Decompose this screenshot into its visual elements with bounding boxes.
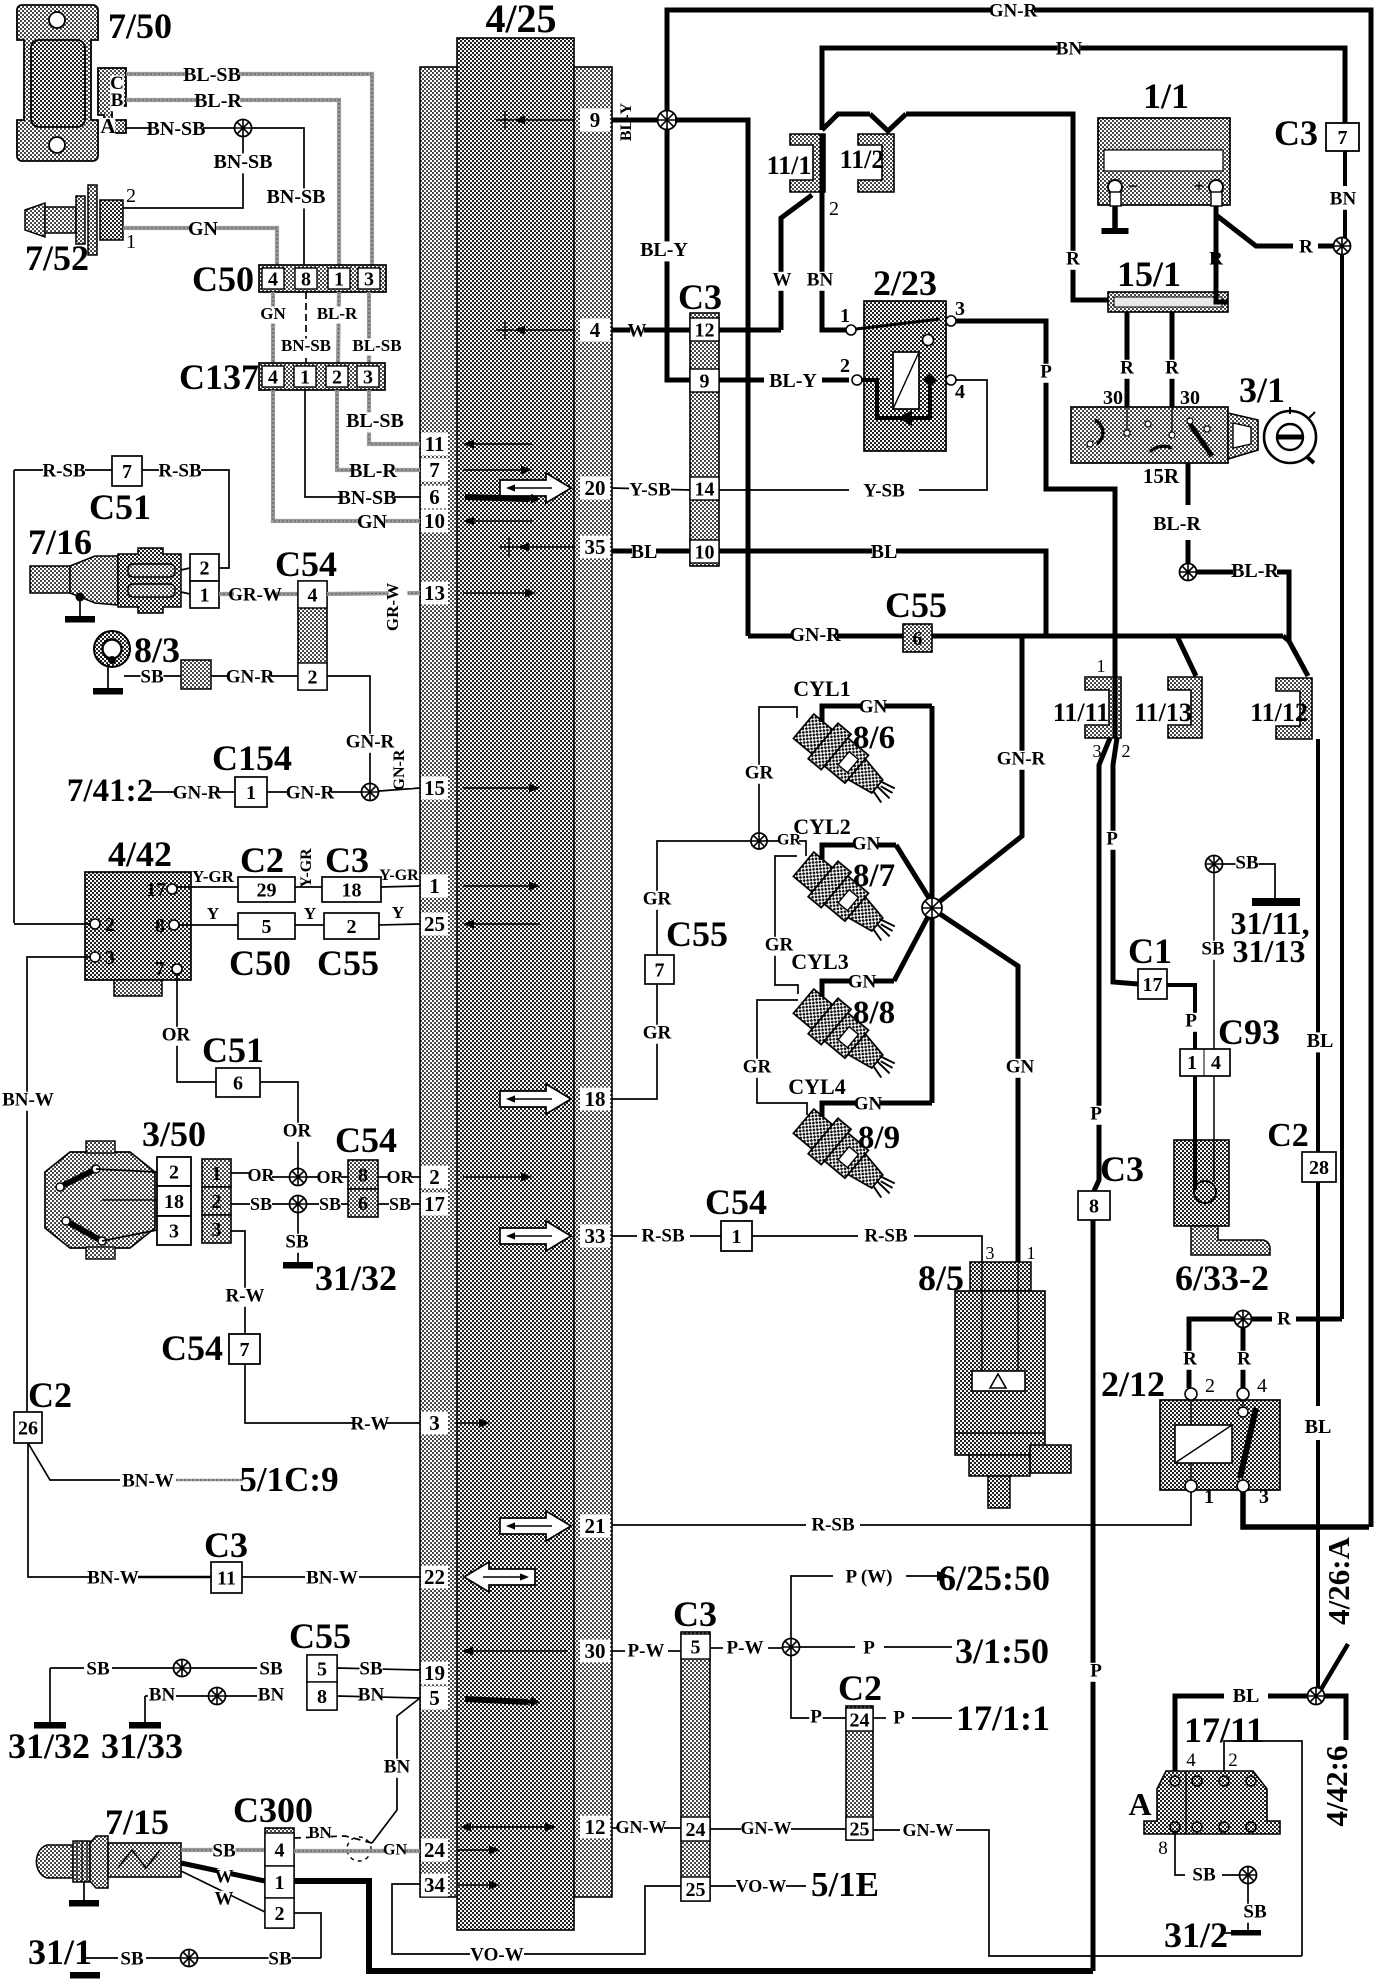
svg-text:17: 17 — [146, 879, 166, 901]
P (W) label — [843, 1566, 895, 1587]
BN-SB label 3 — [214, 151, 273, 174]
GN label cyl3 — [848, 971, 877, 992]
7/15 label — [105, 1802, 169, 1842]
P label 1 — [1039, 361, 1053, 382]
31/11 label — [1230, 905, 1309, 941]
C2 cell 24 — [846, 1708, 873, 1731]
2/23 internal wire — [862, 373, 937, 426]
svg-text:1: 1 — [300, 366, 310, 388]
svg-text:C300: C300 — [233, 1790, 313, 1830]
GN label cyl1 — [859, 696, 888, 717]
svg-text:6: 6 — [233, 1072, 243, 1094]
W label — [628, 320, 647, 341]
svg-text:31/32: 31/32 — [315, 1258, 397, 1298]
C3 cell 5 — [681, 1634, 710, 1659]
svg-text:SB: SB — [250, 1194, 272, 1214]
2/23 pin 4 — [946, 375, 965, 403]
svg-text:C55: C55 — [317, 943, 379, 983]
P label B — [1105, 828, 1119, 849]
svg-text:BL-Y: BL-Y — [640, 239, 688, 261]
31/32 label a — [315, 1258, 397, 1298]
node 3/1:50 — [955, 1631, 1049, 1671]
svg-text:C54: C54 — [705, 1182, 767, 1222]
BN label c1 — [149, 1684, 176, 1705]
wire GN-W ECU pin 12 to C3:24 — [612, 1827, 681, 1829]
GN label — [188, 218, 219, 241]
wire GN-R splice to ECU pin 15 — [379, 788, 420, 791]
GN-W label b — [741, 1818, 792, 1839]
wire R fuse to switch 30 a — [1125, 312, 1130, 410]
svg-text:C2: C2 — [1267, 1117, 1309, 1154]
wire Y-SB 2/23 pin4 to C3:14 — [719, 380, 987, 490]
svg-text:C1: C1 — [1128, 931, 1172, 971]
BN-SB label 2 — [267, 186, 326, 209]
wire GR chain CYL1 — [759, 707, 797, 833]
C1 label — [1128, 931, 1172, 971]
svg-text:GN: GN — [852, 833, 881, 854]
svg-text:SB: SB — [389, 1194, 411, 1214]
svg-text:11: 11 — [425, 432, 445, 456]
svg-text:1: 1 — [334, 268, 344, 290]
svg-text:3: 3 — [169, 1220, 179, 1242]
svg-text:R: R — [1165, 357, 1179, 378]
wire BN C3:7 down — [1343, 123, 1347, 238]
connector C55 pin 7 — [645, 955, 674, 984]
wire SB C55:5 to ECU pin 19 — [337, 1668, 420, 1670]
R label fuse r — [1209, 248, 1223, 269]
11/11 pin 3 — [1093, 741, 1102, 761]
svg-text:2: 2 — [347, 916, 357, 938]
wire SB splice to ground — [297, 1212, 299, 1262]
svg-text:31/32: 31/32 — [8, 1726, 90, 1766]
svg-text:GN: GN — [383, 1841, 407, 1858]
GN label small — [260, 304, 286, 324]
svg-text:9: 9 — [700, 370, 710, 392]
injector 8/9 CYL4 — [789, 1103, 905, 1211]
svg-text:CYL4: CYL4 — [788, 1074, 845, 1099]
C3 label 11 — [204, 1525, 248, 1565]
11/2 label — [840, 145, 885, 174]
ECU 4/25 pin 13 — [421, 581, 536, 605]
C154 label — [212, 738, 292, 778]
svg-text:C3: C3 — [673, 1594, 717, 1634]
svg-text:5/1C:9: 5/1C:9 — [239, 1460, 338, 1499]
connector 11/2 — [858, 134, 894, 192]
BL label low — [1305, 1416, 1332, 1439]
ECU 4/25 pin 2 — [421, 1165, 532, 1189]
battery 1/1 — [1098, 118, 1230, 205]
svg-text:4: 4 — [275, 1839, 285, 1861]
connector C2 bottom strip — [846, 1706, 873, 1840]
30 label b — [1180, 387, 1200, 409]
svg-text:10: 10 — [695, 541, 715, 563]
wire BN ECU pin 5 to C300 — [294, 1698, 420, 1843]
svg-text:15R: 15R — [1143, 464, 1180, 488]
svg-text:BL-R: BL-R — [1231, 560, 1279, 582]
svg-text:6: 6 — [429, 485, 440, 509]
BL-SB label small — [352, 336, 401, 356]
BL-R label — [194, 90, 242, 113]
svg-text:4/42: 4/42 — [108, 834, 172, 874]
connector C1 pin 17 — [1138, 969, 1167, 999]
wire BN-W C2:26 to 5/1C:9 — [28, 1443, 243, 1480]
svg-text:25: 25 — [686, 1879, 706, 1901]
W label 1 — [215, 1866, 234, 1887]
wire BL-Y splice right down — [675, 120, 748, 636]
svg-text:4: 4 — [1257, 1375, 1267, 1397]
C51 label mid — [202, 1030, 264, 1070]
svg-text:R-W: R-W — [225, 1285, 264, 1306]
P label 3150 — [862, 1637, 876, 1658]
wire BN-W 4/42:3 down to C2:26 — [27, 957, 90, 1412]
wire GN-R branch down — [934, 636, 1022, 906]
wire GN-R row — [748, 634, 1283, 639]
svg-text:BL-SB: BL-SB — [183, 64, 241, 86]
injector 8/6 CYL1 — [789, 708, 905, 816]
svg-text:R-SB: R-SB — [641, 1225, 685, 1246]
svg-text:8: 8 — [301, 268, 311, 290]
wire SB 3/50:2 to splice — [231, 1203, 290, 1205]
wire BL-R from 7/50 pin B to C50 pin 1 — [126, 100, 339, 265]
ECU 4/25 pin 10 — [421, 509, 532, 533]
svg-text:8/9: 8/9 — [858, 1120, 900, 1156]
wire R long vertical — [1340, 255, 1344, 1319]
bus GN-R top — [667, 10, 1371, 1527]
wire BL 2/12 pin 3 to row — [1243, 1492, 1369, 1527]
connector C2 pin 29 — [238, 877, 295, 902]
C55 cell 6 — [903, 624, 932, 652]
svg-text:8/5: 8/5 — [918, 1258, 964, 1298]
svg-text:Y-GR: Y-GR — [192, 867, 235, 886]
solenoid 6/33-2 — [1174, 1140, 1270, 1255]
wire P W up branch — [791, 1576, 833, 1638]
svg-text:4/42:6: 4/42:6 — [1319, 1746, 1354, 1827]
4/42 label — [108, 834, 172, 874]
ECU 4/25 pin 17 — [421, 1192, 448, 1216]
wire R-SB row — [14, 469, 112, 471]
ignition coil 8/5 — [955, 1262, 1071, 1508]
17/11 label — [1184, 1710, 1264, 1750]
wire BL right corner — [1325, 1696, 1346, 1740]
wire BL row 17/11 — [1175, 1696, 1307, 1778]
svg-text:7: 7 — [655, 959, 665, 981]
svg-text:1/1: 1/1 — [1143, 76, 1189, 116]
svg-text:1: 1 — [1027, 1243, 1036, 1263]
splice SB 3111 — [1206, 856, 1223, 873]
ECU 4/25 pin 6 — [421, 485, 540, 509]
wire BN-SB C50:8 to C137:1 — [305, 292, 307, 363]
C51 label — [89, 487, 151, 527]
svg-text:29: 29 — [257, 879, 277, 901]
wire GN from 7/52 pin 1 to C50 pin 4 — [123, 228, 277, 265]
7/52 label — [25, 238, 89, 278]
BN-W label h2 — [306, 1567, 358, 1588]
BL-R label row — [349, 460, 397, 483]
4/42 pin 7 — [155, 958, 182, 980]
BN-SB label — [147, 118, 206, 141]
ground 31/1 — [70, 1972, 100, 1979]
svg-text:2: 2 — [840, 355, 850, 377]
31/13 label — [1233, 933, 1306, 969]
ECU 4/25 pin 5 — [421, 1686, 540, 1710]
svg-text:VO-W: VO-W — [470, 1944, 523, 1965]
wire BN-SB splice to C50 pin 8 — [252, 128, 304, 265]
C3 label 8 — [1100, 1149, 1144, 1189]
wire BL-Y splice down to C3:9 — [667, 129, 690, 380]
VO-W label — [470, 1944, 523, 1965]
C2 cell 25 — [846, 1817, 873, 1840]
GN-R bus label — [989, 0, 1038, 21]
wire diag 4/26A — [1320, 1644, 1348, 1691]
BL label 1711 — [1233, 1685, 1260, 1708]
15/1 label — [1117, 254, 1181, 294]
BN label v5 — [384, 1756, 411, 1777]
node 5/1E — [811, 1865, 879, 1904]
svg-text:4/25: 4/25 — [485, 0, 556, 41]
GN-R label — [226, 666, 275, 687]
splice R 212 — [1235, 1311, 1252, 1328]
7/16 ground — [65, 593, 95, 623]
svg-text:BN-SB: BN-SB — [267, 186, 326, 208]
BN label c3 — [358, 1684, 385, 1705]
SB label c2 — [259, 1658, 283, 1679]
svg-text:5: 5 — [691, 1636, 701, 1658]
ignition switch 3/1 — [1071, 407, 1258, 463]
svg-text:2: 2 — [429, 1165, 440, 1189]
svg-text:SB: SB — [359, 1658, 383, 1679]
svg-text:R: R — [1066, 248, 1080, 269]
7/15 ground — [69, 1882, 99, 1907]
svg-text:GN: GN — [1006, 1056, 1035, 1077]
11/1 label — [767, 151, 812, 180]
wire P C2:24 right — [873, 1717, 952, 1719]
svg-text:19: 19 — [424, 1661, 445, 1685]
C3 cell 14 — [690, 477, 719, 500]
2/12 pin 1 — [1185, 1480, 1214, 1508]
splice BL-R — [1180, 564, 1197, 581]
svg-text:Y: Y — [304, 904, 316, 923]
svg-text:9: 9 — [590, 108, 601, 132]
ECU 4/25 pin 1 — [421, 874, 540, 898]
svg-text:GN: GN — [848, 971, 877, 992]
svg-text:30: 30 — [1180, 387, 1200, 409]
W label 2 — [215, 1888, 234, 1909]
relay 2/12 body — [1160, 1400, 1280, 1490]
svg-text:2/23: 2/23 — [873, 263, 937, 303]
SB label 3111 — [1235, 852, 1259, 873]
svg-text:BN: BN — [258, 1684, 285, 1705]
svg-text:GN-R: GN-R — [226, 666, 275, 687]
6/33-2 label — [1175, 1258, 1269, 1298]
svg-text:25: 25 — [850, 1818, 870, 1840]
connector C54 pin 6 — [348, 1189, 378, 1217]
BN label v7 — [1330, 188, 1357, 209]
17/11 A label — [1128, 1786, 1151, 1822]
ECU 4/25 pin 21 — [500, 1511, 610, 1541]
svg-text:SB: SB — [268, 1948, 292, 1969]
svg-text:BN: BN — [149, 1684, 176, 1705]
ECU 4/25 pin 25 — [421, 912, 540, 936]
P-W label b — [727, 1637, 764, 1658]
svg-text:3/50: 3/50 — [142, 1114, 206, 1154]
svg-text:5: 5 — [317, 1658, 327, 1680]
OR label r3 — [387, 1167, 415, 1188]
svg-text:C54: C54 — [335, 1120, 397, 1160]
splice OR — [290, 1169, 307, 1186]
Y label 3 — [392, 903, 404, 922]
wire BN-W C2:26 down to C3:11 — [28, 1443, 211, 1577]
3/1 key symbol — [1264, 407, 1316, 463]
svg-text:1: 1 — [429, 874, 440, 898]
C137 label — [179, 357, 259, 397]
wire GN-W C2:25 down — [873, 1830, 1302, 1956]
BN-W label d — [122, 1470, 174, 1491]
svg-text:BL: BL — [871, 541, 898, 563]
svg-text:P: P — [893, 1707, 905, 1728]
wire BN 11/1 through — [822, 134, 846, 330]
sensor 7/52 — [25, 185, 123, 255]
R label 30a — [1120, 357, 1134, 378]
svg-text:5/1E: 5/1E — [811, 1865, 879, 1904]
ECU 4/25 pin 35 — [500, 535, 610, 559]
svg-text:4: 4 — [590, 318, 601, 342]
3/1 label — [1239, 370, 1285, 410]
svg-text:CYL1: CYL1 — [793, 676, 850, 701]
svg-text:BN: BN — [358, 1684, 385, 1705]
svg-text:7: 7 — [1338, 127, 1348, 149]
8/3 label — [134, 630, 180, 670]
svg-text:W: W — [773, 269, 792, 290]
BL label l — [631, 541, 658, 564]
SB label c1 — [86, 1658, 110, 1679]
svg-text:CYL3: CYL3 — [791, 949, 848, 974]
wire BN-SB splice to 7/52 pin 2 — [123, 137, 243, 208]
svg-text:R-W: R-W — [350, 1413, 389, 1434]
wire P to 3/1:50 — [800, 1646, 952, 1648]
svg-text:2: 2 — [1122, 741, 1131, 761]
SB label 715 — [212, 1840, 236, 1861]
OR label v — [162, 1024, 191, 1045]
svg-text:17: 17 — [424, 1192, 445, 1216]
svg-text:C2: C2 — [838, 1668, 882, 1708]
C3 label 442 — [325, 840, 369, 880]
connector C54 pin 8 — [348, 1160, 378, 1189]
svg-text:BN: BN — [807, 269, 834, 290]
wire GR chain CYL2-CYL3 — [775, 856, 798, 994]
svg-text:31/1: 31/1 — [28, 1932, 92, 1972]
splice GR — [751, 833, 767, 849]
wire P through 11/11 overlay — [1113, 677, 1118, 738]
wire BL-R 15R down — [1186, 452, 1191, 564]
wire Y-GR C3:18 to ECU pin 1 — [381, 886, 420, 887]
svg-text:30: 30 — [1103, 387, 1123, 409]
svg-text:R-SB: R-SB — [42, 460, 86, 481]
svg-text:SB: SB — [120, 1948, 144, 1969]
8/5 pin 3 label — [986, 1243, 995, 1263]
C93 label — [1218, 1012, 1280, 1052]
2/12 switch — [1238, 1400, 1256, 1478]
svg-text:BN-SB: BN-SB — [281, 336, 331, 355]
svg-text:GN-W: GN-W — [741, 1818, 792, 1838]
svg-text:31/33: 31/33 — [101, 1726, 183, 1766]
svg-text:−: − — [1128, 176, 1138, 196]
W label v — [773, 269, 792, 290]
svg-text:6/33-2: 6/33-2 — [1175, 1258, 1269, 1298]
GN label 24 — [383, 1841, 407, 1858]
svg-text:2: 2 — [169, 1161, 179, 1183]
svg-text:BL: BL — [1305, 1416, 1332, 1438]
wire GN CYL4 — [822, 1103, 932, 1117]
svg-text:GN: GN — [357, 511, 388, 533]
8/5 pin 1 label — [1027, 1243, 1036, 1263]
connector 17/11 — [1144, 1771, 1280, 1834]
wire BL-Y ECU pin 9 — [612, 118, 660, 123]
svg-text:OR: OR — [317, 1167, 345, 1187]
wire SB splice to C93:4 — [1213, 873, 1215, 1049]
C300 label — [233, 1790, 313, 1830]
connector C3 strip — [690, 313, 719, 566]
GR label 6 — [643, 1022, 672, 1043]
arrow to 6/25:50 — [906, 1571, 950, 1581]
svg-text:C3: C3 — [1274, 113, 1318, 153]
GN-R vertical label — [391, 749, 413, 790]
svg-text:P-W: P-W — [628, 1640, 665, 1661]
svg-text:C54: C54 — [275, 544, 337, 584]
svg-text:C55: C55 — [666, 914, 728, 954]
ground 31/11 31/13 — [1252, 898, 1300, 906]
wire R-SB ECU pin 21 to 2/12 pin 1 — [612, 1492, 1191, 1525]
GN-W label c — [903, 1820, 954, 1841]
svg-text:OR: OR — [248, 1165, 276, 1185]
ECU 4/25 pin 9 — [496, 108, 610, 132]
svg-text:8/6: 8/6 — [853, 720, 895, 756]
SB label — [140, 666, 164, 687]
svg-text:2: 2 — [275, 1903, 285, 1925]
wire W C300:1 to bottom bus — [294, 1881, 1093, 1971]
C3 cell 12 — [690, 318, 719, 341]
wire BL-SB C137:3 to ECU pin 11 — [369, 390, 420, 444]
svg-text:1: 1 — [246, 782, 256, 804]
svg-text:R: R — [1299, 236, 1313, 257]
connector C93 — [1180, 1049, 1230, 1076]
R-W label v — [225, 1285, 264, 1306]
P label 1711 — [892, 1707, 906, 1728]
svg-text:4: 4 — [1186, 1750, 1196, 1771]
wire GN C50:4 to C137:4 — [271, 292, 275, 363]
wire OR 3/50:1 to splice — [231, 1173, 290, 1177]
R-SB label 2 — [158, 460, 202, 481]
svg-text:3: 3 — [1259, 1486, 1269, 1508]
svg-text:R-SB: R-SB — [811, 1514, 855, 1535]
splice BN-SB — [235, 120, 252, 137]
wire R-SB C51:7 to 7/16 pin 2 — [142, 470, 229, 568]
wire SB 17/11 pin 8 — [1175, 1832, 1239, 1875]
CYL1 label — [793, 676, 850, 701]
wire R fuse right to battery — [1216, 215, 1228, 302]
wire GN CYL3 — [822, 911, 931, 997]
wire GR to CYL2 — [767, 841, 806, 856]
connector C3 pin 7 top — [1326, 123, 1359, 151]
svg-text:4: 4 — [268, 366, 278, 388]
node 17/1:1 — [956, 1698, 1050, 1738]
3/50 label — [142, 1114, 206, 1154]
svg-text:2: 2 — [829, 198, 839, 220]
Y label 2 — [304, 904, 316, 923]
svg-text:2: 2 — [200, 557, 210, 579]
svg-text:BL-Y: BL-Y — [769, 370, 817, 392]
svg-text:1: 1 — [126, 231, 136, 253]
VO-W label r — [736, 1876, 787, 1897]
